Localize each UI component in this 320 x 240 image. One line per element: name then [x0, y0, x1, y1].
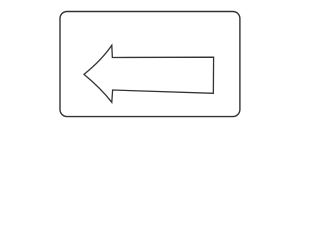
left-pointing arrow outline [84, 45, 214, 102]
rounded rectangle sign border [60, 12, 240, 117]
